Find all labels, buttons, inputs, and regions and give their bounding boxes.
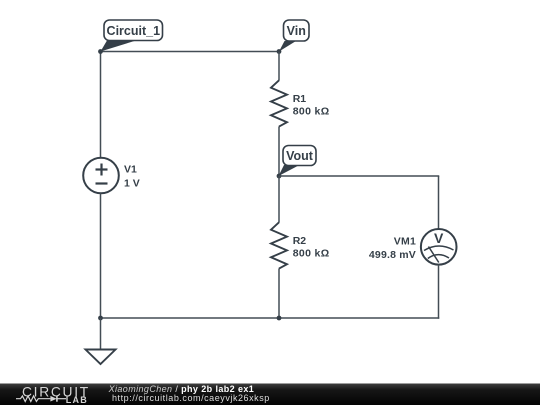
svg-text:800 kΩ: 800 kΩ <box>293 106 330 118</box>
V1 value label <box>124 164 140 190</box>
node label Circuit_1 <box>101 20 163 52</box>
node label Vout <box>279 146 317 177</box>
svg-text:http://circuitlab.com/caeyvjk2: http://circuitlab.com/caeyvjk26xksp <box>112 393 270 403</box>
footer bar <box>0 384 540 406</box>
junction dot R2 bottom rail <box>277 316 282 321</box>
R1 value label <box>293 93 330 118</box>
svg-text:Vin: Vin <box>287 24 306 38</box>
wire left vertical upper (node to V1 top) <box>100 52 102 159</box>
svg-text:R2: R2 <box>293 235 307 247</box>
VM1 value label <box>369 236 416 261</box>
svg-text:R1: R1 <box>293 93 307 105</box>
node Vout junction dot <box>277 174 282 179</box>
resistor R1 <box>271 80 287 126</box>
node label Vin <box>279 20 309 52</box>
svg-text:V: V <box>434 230 444 246</box>
svg-text:VM1: VM1 <box>394 236 416 248</box>
svg-text:499.8 mV: 499.8 mV <box>369 249 416 261</box>
wire left vertical lower (V1 bottom to ground rail) <box>100 193 102 318</box>
voltage source V1 <box>83 158 119 194</box>
svg-text:Vout: Vout <box>286 149 314 163</box>
svg-text:V1: V1 <box>124 164 137 176</box>
junction dot bottom-left <box>98 316 103 321</box>
resistor R2 <box>271 222 287 268</box>
voltmeter VM1 <box>421 229 457 265</box>
node Vin junction dot <box>277 49 282 54</box>
wire voltmeter bottom to ground rail <box>438 265 440 319</box>
R2 value label <box>293 235 330 260</box>
bottom ground rail wire <box>101 317 440 319</box>
svg-text:LAB: LAB <box>66 395 88 405</box>
wire Vout to voltmeter branch (horizontal) <box>279 175 439 177</box>
svg-text:800 kΩ: 800 kΩ <box>293 248 330 260</box>
wire R1 bottom to Vout node <box>278 127 280 177</box>
svg-text:Circuit_1: Circuit_1 <box>107 24 161 38</box>
wire top horizontal (Circuit_1 node to Vin) <box>101 51 280 53</box>
wire R2 bottom to ground rail <box>278 269 280 319</box>
CircuitLab logo <box>16 385 90 405</box>
node Circuit_1 junction dot <box>98 49 103 54</box>
wire voltmeter branch vertical upper <box>438 176 440 230</box>
svg-text:1 V: 1 V <box>124 177 140 189</box>
wire Vout node to R2 top <box>278 176 280 223</box>
ground <box>86 318 116 364</box>
wire Vin to R1 top <box>278 52 280 81</box>
